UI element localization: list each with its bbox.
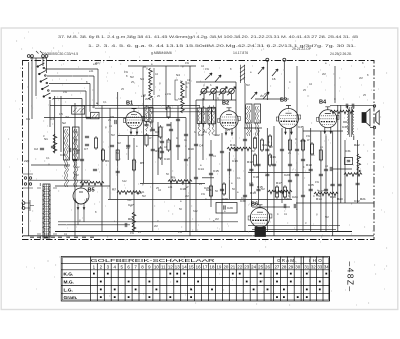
- resistor R11: [209, 184, 212, 198]
- svg-text:C13: C13: [232, 159, 238, 163]
- wire: [44, 117, 186, 119]
- svg-text:R19: R19: [330, 195, 336, 199]
- svg-text:C: C: [243, 77, 245, 81]
- svg-text:B2: B2: [222, 101, 229, 107]
- svg-text:B4: B4: [319, 100, 327, 106]
- trimmer capacitor CT3: [219, 87, 227, 100]
- resistor R2: [159, 125, 162, 139]
- svg-text:R6: R6: [105, 159, 109, 163]
- chassis tick marks: [30, 236, 94, 238]
- resistor R17: [132, 158, 135, 172]
- svg-text:2M: 2M: [359, 76, 363, 80]
- svg-text:13: 13: [175, 264, 180, 269]
- svg-text:C9: C9: [155, 149, 159, 153]
- coupling box: [72, 106, 85, 114]
- wire: [281, 128, 283, 203]
- svg-text:5M: 5M: [261, 187, 265, 191]
- band switch contact SK2: [39, 71, 47, 77]
- svg-text:1W: 1W: [306, 134, 310, 138]
- svg-text:2M: 2M: [260, 94, 264, 98]
- wire: [248, 172, 310, 174]
- wire: [296, 202, 375, 204]
- wire: [118, 135, 158, 137]
- wire: [266, 60, 268, 100]
- IF can coil L1: [145, 105, 149, 131]
- capacitor C16: [337, 184, 341, 186]
- wire: [320, 131, 322, 231]
- wire: [334, 66, 336, 103]
- svg-text:GRAM.: GRAM.: [277, 258, 297, 263]
- resistor RW3: [227, 147, 251, 151]
- svg-text:C35: C35: [298, 125, 304, 129]
- svg-text:S12: S12: [122, 179, 127, 183]
- band switch contact SK4: [42, 86, 50, 92]
- svg-text:2M: 2M: [145, 97, 149, 101]
- svg-text:C: C: [313, 194, 315, 198]
- capacitor C28: [234, 149, 238, 151]
- svg-text:12: 12: [168, 264, 173, 269]
- wire: [196, 81, 236, 83]
- antenna and earth terminals: [27, 51, 48, 57]
- wire: [289, 128, 291, 199]
- IF can coil L4: [202, 106, 206, 135]
- capacitor C10: [249, 184, 253, 186]
- IF transformer can S9: [254, 104, 261, 136]
- svg-text:1W: 1W: [201, 192, 205, 196]
- svg-text:31: 31: [304, 264, 309, 269]
- switch blade arrow 4: [263, 92, 269, 99]
- schematic dash-dot frame: [23, 61, 375, 240]
- wire: [250, 124, 252, 207]
- svg-text:a: a: [96, 101, 98, 105]
- svg-text:0,1: 0,1: [46, 156, 50, 160]
- svg-text:e41: e41: [89, 69, 94, 73]
- svg-text:S12: S12: [75, 165, 80, 169]
- capacitor C4: [126, 145, 130, 147]
- capacitor C11: [256, 189, 260, 191]
- capacitor C12: [265, 174, 269, 176]
- capacitor C23: [194, 144, 198, 146]
- tube B1: [123, 109, 144, 135]
- resistor R4: [167, 138, 170, 152]
- svg-text:C7: C7: [84, 147, 88, 151]
- wire: [49, 100, 51, 127]
- svg-text:R16: R16: [270, 155, 276, 159]
- svg-text:C33: C33: [60, 153, 66, 157]
- resistor R19: [253, 153, 256, 167]
- svg-text:28: 28: [281, 264, 286, 269]
- svg-text:5M: 5M: [325, 215, 329, 219]
- svg-text:GOLFBEREIK-SCHAKELAAR: GOLFBEREIK-SCHAKELAAR: [91, 258, 215, 263]
- resistor R20: [268, 153, 271, 167]
- wire: [108, 199, 292, 201]
- svg-text:C32: C32: [354, 199, 360, 203]
- svg-text:1W: 1W: [315, 180, 319, 184]
- svg-text:30: 30: [295, 264, 300, 269]
- svg-text:S12: S12: [127, 198, 132, 202]
- wire: [133, 138, 135, 231]
- svg-text:2M: 2M: [126, 146, 130, 150]
- wire: [50, 105, 200, 107]
- capacitor C17a: [110, 145, 114, 147]
- capacitor C46: [288, 180, 292, 182]
- svg-text:2M: 2M: [65, 115, 69, 119]
- svg-text:L.G.: L.G.: [64, 288, 73, 294]
- wire: [60, 96, 62, 152]
- wire: [58, 224, 130, 226]
- svg-text:23: 23: [244, 264, 249, 269]
- switch blade arrow 5: [205, 73, 212, 80]
- wire: [195, 100, 197, 231]
- wire: [228, 152, 230, 199]
- svg-text:2M: 2M: [251, 149, 255, 153]
- svg-text:5M: 5M: [117, 141, 121, 145]
- svg-text:S12: S12: [178, 97, 183, 101]
- wire: [45, 68, 98, 70]
- resistor RW2: [117, 191, 141, 195]
- wire: [202, 98, 204, 160]
- wire: [255, 98, 282, 100]
- resistor R5: [253, 136, 256, 150]
- switch blade arrow 6: [215, 75, 221, 82]
- resistor R18: [159, 146, 162, 160]
- capacitor C46: [356, 183, 360, 185]
- wire: [248, 225, 340, 227]
- capacitor C44: [243, 195, 247, 197]
- svg-text:C3: C3: [50, 117, 54, 121]
- capacitor C14: [309, 189, 313, 191]
- svg-text:27: 27: [274, 264, 279, 269]
- svg-text:R12: R12: [247, 160, 253, 164]
- capacitor C67: [85, 144, 89, 146]
- resistor R10: [310, 142, 313, 156]
- trimmer capacitor CT2: [209, 87, 217, 100]
- power transformer T1: [37, 183, 57, 239]
- IF can coil L5: [208, 105, 212, 135]
- svg-text:C: C: [325, 133, 327, 137]
- capacitor C17: [324, 189, 328, 191]
- gramophone terminals: [266, 58, 286, 61]
- IF transformer can S8: [246, 104, 253, 136]
- svg-text:S3: S3: [140, 77, 144, 81]
- svg-text:0,1: 0,1: [186, 81, 190, 85]
- capacitor C31: [256, 164, 260, 166]
- svg-text:C28: C28: [300, 139, 306, 143]
- svg-text:1W: 1W: [167, 92, 171, 96]
- svg-text:34: 34: [324, 264, 329, 269]
- svg-text:17: 17: [203, 264, 208, 269]
- svg-text:C1: C1: [26, 117, 30, 121]
- wire: [101, 106, 103, 232]
- trimmer capacitor CT1: [200, 87, 208, 100]
- wire: [273, 126, 275, 236]
- capacitor CH3: [224, 205, 225, 209]
- svg-text:0,1: 0,1: [103, 100, 107, 104]
- svg-text:32: 32: [311, 264, 316, 269]
- tube B6: [248, 205, 272, 233]
- svg-text:C12: C12: [214, 133, 220, 137]
- wire: [30, 57, 47, 59]
- capacitor C26: [220, 189, 224, 191]
- resistor R16: [116, 148, 119, 162]
- wire: [89, 84, 91, 112]
- capacitor C49: [209, 154, 213, 156]
- wire: [46, 58, 48, 73]
- capacitor C37: [301, 159, 305, 161]
- svg-text:e41: e41: [140, 190, 145, 194]
- svg-text:R10: R10: [188, 147, 194, 151]
- svg-text:C: C: [167, 140, 169, 144]
- svg-text:C21: C21: [204, 186, 210, 190]
- capacitor C19: [160, 151, 164, 153]
- capacitor C35: [288, 164, 292, 166]
- wire: [28, 62, 30, 236]
- svg-text:R11: R11: [230, 143, 236, 147]
- wire: [28, 179, 90, 181]
- table horizontal rules: [61, 263, 329, 293]
- oscillator coil S4: [175, 80, 186, 113]
- capacitor C39: [324, 169, 328, 171]
- capacitor CH7: [77, 150, 79, 154]
- svg-text:5M: 5M: [142, 194, 146, 198]
- wire: [221, 133, 223, 231]
- svg-text:R5: R5: [140, 161, 144, 165]
- svg-text:R21: R21: [360, 197, 366, 201]
- svg-text:R18: R18: [306, 163, 312, 167]
- tube B2: [218, 108, 241, 135]
- wire: [252, 228, 336, 230]
- capacitor C34: [280, 149, 284, 151]
- capacitor C6a: [51, 146, 55, 148]
- wire: [244, 83, 246, 231]
- capacitor C15: [319, 174, 323, 176]
- wire: [165, 66, 167, 110]
- svg-text:29: 29: [288, 264, 293, 269]
- wire: [340, 105, 342, 203]
- capacitor C7: [160, 141, 164, 143]
- capacitor C27: [227, 169, 231, 171]
- electrolytic block outline: [216, 203, 237, 214]
- svg-text:C25: C25: [308, 183, 314, 187]
- main chassis bus: [23, 235, 374, 237]
- wire: [128, 65, 196, 67]
- svg-text:C14: C14: [198, 167, 204, 171]
- capacitor C42: [86, 117, 90, 119]
- mains voltage selector: [23, 174, 33, 188]
- svg-text:26: 26: [265, 264, 270, 269]
- svg-text:Gram.: Gram.: [64, 295, 78, 301]
- wire: [58, 221, 238, 223]
- svg-text:5M: 5M: [75, 173, 79, 177]
- svg-text:C: C: [205, 197, 207, 201]
- capacitor C20: [169, 129, 173, 131]
- capacitor C6: [166, 124, 170, 126]
- IF transformer can S7: [73, 127, 80, 187]
- svg-text:C4: C4: [199, 144, 203, 148]
- svg-text:15: 15: [189, 264, 194, 269]
- tube B6 base: [255, 227, 266, 237]
- capacitor CH1: [115, 120, 116, 124]
- wire: [93, 76, 95, 108]
- switch blade arrow 1: [258, 67, 264, 74]
- wire: [127, 136, 129, 160]
- svg-text:R17: R17: [276, 181, 282, 185]
- IF transformer can S6: [64, 127, 70, 187]
- capacitor C40: [73, 159, 77, 161]
- svg-text:S4: S4: [176, 73, 180, 77]
- svg-text:C23: C23: [284, 173, 290, 177]
- mains plug: [22, 200, 34, 211]
- wire: [333, 168, 352, 170]
- svg-text:e41: e41: [93, 62, 98, 66]
- resistor R9: [283, 185, 286, 199]
- svg-text:R7: R7: [112, 188, 116, 192]
- svg-text:14.17.876: 14.17.876: [233, 51, 248, 55]
- capacitor C30: [249, 169, 253, 171]
- svg-text:33: 33: [317, 264, 322, 269]
- resistor RW1: [168, 180, 192, 184]
- svg-text:1W: 1W: [185, 61, 189, 65]
- capacitor CH2: [330, 167, 332, 171]
- wire: [74, 103, 76, 236]
- svg-text:2M: 2M: [74, 138, 78, 142]
- wire: [97, 69, 99, 106]
- wire: [109, 108, 111, 199]
- table outer frame: [61, 257, 329, 302]
- capacitor C9: [184, 134, 188, 136]
- wire: [189, 66, 191, 236]
- wire: [95, 107, 215, 109]
- resistor R22: [301, 138, 304, 152]
- capacitor C22: [184, 159, 188, 161]
- svg-text:C31: C31: [345, 149, 351, 153]
- svg-text:2M: 2M: [322, 72, 326, 76]
- capacitor C43: [93, 169, 97, 171]
- svg-text:2M: 2M: [154, 224, 158, 228]
- capacitor C33: [272, 164, 276, 166]
- tube B5: [73, 186, 89, 225]
- svg-text:2M: 2M: [215, 217, 219, 221]
- wire: [53, 98, 82, 100]
- svg-text:29.21.22.OP: 29.21.22.OP: [292, 47, 312, 51]
- column numbers 1-34: [93, 264, 330, 269]
- wire: [143, 95, 145, 183]
- wire: [81, 99, 83, 188]
- wire: [303, 130, 343, 132]
- wire: [296, 66, 298, 231]
- wire: [337, 105, 339, 231]
- svg-text:0,1: 0,1: [237, 176, 241, 180]
- wire: [177, 106, 179, 160]
- IF can coil L6: [212, 105, 216, 135]
- tube B4: [317, 107, 339, 134]
- capacitor C18: [331, 184, 335, 186]
- svg-text:24: 24: [251, 264, 256, 269]
- resistor R21: [288, 138, 291, 152]
- svg-text:1W: 1W: [59, 112, 63, 116]
- band switch contact SK5: [43, 93, 51, 99]
- wire: [210, 140, 212, 207]
- wire: [161, 127, 163, 165]
- svg-text:–48Z–: –48Z–: [346, 261, 356, 292]
- svg-text:S1: S1: [44, 137, 48, 141]
- output transformer T2: [343, 106, 354, 140]
- wire: [54, 96, 56, 152]
- iron-core choke hatching: [240, 65, 245, 83]
- wire: [344, 140, 346, 203]
- svg-text:1. 2. 3. 4. 5. 6.: 1. 2. 3. 4. 5. 6. g.a. 9. 44 13.15 15.50…: [88, 44, 356, 48]
- capacitor C41: [346, 104, 348, 108]
- svg-text:C10: C10: [164, 157, 170, 161]
- table vertical rules: [90, 257, 329, 302]
- trimmer capacitor CT4: [227, 87, 235, 100]
- wire: [325, 136, 327, 231]
- wire: [200, 91, 232, 93]
- capacitor C3a: [40, 148, 44, 150]
- resistor RW7: [330, 110, 354, 114]
- capacitor C24: [194, 177, 198, 179]
- capacitor C21: [176, 145, 180, 147]
- wire: [302, 128, 304, 231]
- capacitor C48: [220, 151, 224, 153]
- wire: [117, 92, 119, 231]
- svg-text:5M: 5M: [130, 75, 134, 79]
- svg-text:M.G.: M.G.: [64, 280, 74, 286]
- tube B3: [276, 106, 300, 135]
- svg-text:5M: 5M: [246, 83, 250, 87]
- svg-text:220: 220: [24, 159, 29, 163]
- svg-text:R8: R8: [128, 217, 132, 221]
- svg-text:14: 14: [182, 264, 187, 269]
- svg-text:2M: 2M: [185, 194, 189, 198]
- wire: [47, 75, 94, 77]
- svg-text:25: 25: [258, 264, 263, 269]
- capacitor CH5: [294, 204, 296, 208]
- capacitor C41: [80, 159, 84, 161]
- svg-text:C19: C19: [253, 175, 259, 179]
- svg-text:1W: 1W: [203, 130, 207, 134]
- wire: [215, 92, 217, 136]
- svg-text:21: 21: [230, 264, 235, 269]
- resistor R6: [260, 138, 263, 152]
- wire: [310, 128, 312, 231]
- svg-text:R9: R9: [171, 176, 175, 180]
- wire: [370, 127, 375, 129]
- svg-text:S12: S12: [65, 164, 70, 168]
- resistor RW6: [80, 182, 104, 186]
- svg-text:1W: 1W: [205, 67, 209, 71]
- resistor R8: [275, 185, 278, 199]
- wire: [150, 111, 215, 113]
- loudspeaker: [362, 105, 379, 129]
- svg-text:16: 16: [272, 77, 276, 81]
- resistor R28: [357, 154, 361, 174]
- wire: [357, 140, 359, 203]
- capacitor C42: [352, 104, 354, 108]
- svg-text:I H O.: I H O.: [309, 258, 324, 263]
- svg-text:S12: S12: [193, 209, 198, 213]
- capacitor CH8: [125, 223, 127, 227]
- IF can coil L2: [149, 106, 153, 132]
- capacitor C45: [280, 191, 284, 193]
- capacitor C36: [295, 149, 299, 151]
- wire: [185, 118, 187, 231]
- svg-text:g.M88M46M6: g.M88M46M6: [151, 51, 172, 55]
- svg-text:C20: C20: [222, 197, 228, 201]
- wire: [330, 105, 375, 107]
- svg-text:20: 20: [223, 264, 228, 269]
- svg-text:C15: C15: [213, 169, 219, 173]
